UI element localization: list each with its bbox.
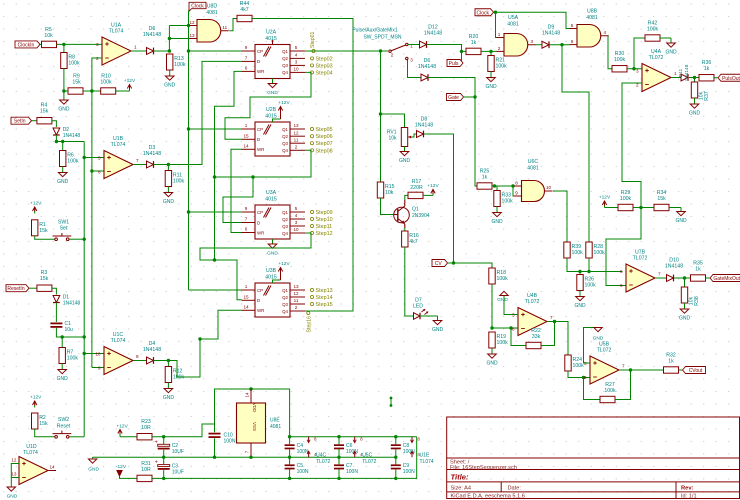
svg-text:3: 3 xyxy=(636,68,639,73)
wire R10 to +12V xyxy=(116,90,130,92)
svg-text:4015: 4015 xyxy=(265,36,277,42)
svg-text:Rev:: Rev: xyxy=(681,486,694,492)
resistor R17 xyxy=(408,179,423,199)
wire Q1 collector to R17 xyxy=(405,195,408,200)
wire stage1 cascade Q4 to U2B D xyxy=(225,72,311,139)
svg-text:5: 5 xyxy=(295,206,298,211)
resistor R10 xyxy=(100,74,115,95)
ground (U4B +in) xyxy=(497,291,518,314)
svg-text:Q1: Q1 xyxy=(282,127,288,132)
svg-text:7: 7 xyxy=(550,315,553,320)
svg-text:GND: GND xyxy=(57,179,69,185)
wire stage3 cascade Q4 to U3B D xyxy=(200,233,311,260)
LED D7 xyxy=(413,298,428,320)
wire R33 stub xyxy=(496,186,498,191)
wire GND mid rail xyxy=(93,456,398,459)
wire Gate label to node xyxy=(464,96,476,98)
wire R15 to Q1 base xyxy=(381,198,395,215)
svg-text:GND: GND xyxy=(675,218,687,224)
svg-text:15k: 15k xyxy=(40,109,49,115)
svg-text:2: 2 xyxy=(498,46,501,51)
wire D11 to R36 xyxy=(689,76,699,79)
svg-text:100k: 100k xyxy=(67,159,79,165)
wire R42 branch xyxy=(634,38,645,69)
wire R7 stub xyxy=(61,337,63,348)
power +12V (U3B) xyxy=(273,261,291,283)
ground (U2A) xyxy=(267,79,278,97)
op-amp power unit U4C xyxy=(307,437,330,465)
svg-text:11: 11 xyxy=(294,137,299,142)
wire U1D output xyxy=(48,464,56,470)
global label Gate xyxy=(447,94,464,102)
ground xyxy=(679,303,691,322)
wire R6 stub xyxy=(62,142,64,151)
svg-text:Q4: Q4 xyxy=(282,70,288,75)
svg-text:9: 9 xyxy=(515,191,518,196)
capacitor C2 xyxy=(155,439,184,455)
svg-text:U8D: U8D xyxy=(207,4,218,10)
svg-text:GND: GND xyxy=(58,107,70,113)
diode D6 xyxy=(418,58,436,81)
resistor R2 xyxy=(32,413,48,429)
wire R42 to GND xyxy=(660,37,671,39)
svg-text:15k: 15k xyxy=(657,196,666,202)
svg-text:6: 6 xyxy=(620,283,623,288)
svg-text:8: 8 xyxy=(515,181,518,186)
wire step16 row xyxy=(305,310,311,312)
wire CV node to R18 xyxy=(454,263,493,268)
wire U1C node to WR chain xyxy=(168,310,241,377)
hierarchical label Step01 (vertical) xyxy=(310,31,316,52)
svg-text:100k: 100k xyxy=(604,388,616,394)
wire set latch rail x=84 xyxy=(83,142,86,437)
resistor R23 xyxy=(137,419,152,440)
svg-text:Step01: Step01 xyxy=(310,31,316,48)
svg-text:3: 3 xyxy=(295,220,298,225)
svg-text:1N4148: 1N4148 xyxy=(63,301,81,307)
wire U5B feedback R27 xyxy=(584,378,601,400)
svg-text:Q1: Q1 xyxy=(282,210,288,215)
hierarchical label Step15 xyxy=(310,302,332,308)
svg-text:4k7: 4k7 xyxy=(240,7,248,13)
wire D10 to R35 xyxy=(674,276,691,279)
wire U8B out to R30 xyxy=(608,36,612,69)
svg-text:2: 2 xyxy=(295,145,298,150)
svg-text:SW_SPDT_MSN: SW_SPDT_MSN xyxy=(363,35,401,41)
svg-text:GND: GND xyxy=(497,297,508,303)
svg-text:Q2: Q2 xyxy=(282,56,288,61)
resistor R38 xyxy=(681,287,700,306)
diode D1 xyxy=(53,295,80,307)
svg-text:Q3: Q3 xyxy=(282,302,288,307)
svg-text:1N4148: 1N4148 xyxy=(542,31,560,37)
svg-text:6: 6 xyxy=(98,169,101,174)
power +12V (rails) xyxy=(116,424,128,437)
svg-text:TL072: TL072 xyxy=(316,459,330,465)
diode D8 xyxy=(415,117,433,138)
resistor R34 xyxy=(654,190,669,211)
resistor R8 xyxy=(61,53,80,69)
svg-text:+12V: +12V xyxy=(116,424,128,430)
resistor R4 xyxy=(37,103,52,124)
wire SetIn to R4 xyxy=(32,120,38,122)
resistor R15 xyxy=(377,182,394,198)
svg-text:8: 8 xyxy=(136,354,139,359)
svg-text:13: 13 xyxy=(293,123,299,128)
title block sheet row xyxy=(450,460,517,471)
resistor R35 xyxy=(691,261,706,282)
wire D12 to R20 node xyxy=(427,45,467,54)
svg-text:Step08: Step08 xyxy=(316,148,333,154)
svg-text:5: 5 xyxy=(571,23,574,28)
svg-text:10R: 10R xyxy=(141,425,151,431)
ground (U1D) xyxy=(7,487,18,500)
wire R22 to output xyxy=(541,320,556,346)
svg-text:7: 7 xyxy=(136,158,139,163)
wire C6 lead2 xyxy=(338,449,340,457)
svg-text:Q4: Q4 xyxy=(282,309,288,314)
svg-text:1N4148: 1N4148 xyxy=(684,64,690,81)
resistor R6 xyxy=(60,151,79,167)
switch SW2 xyxy=(53,417,72,438)
ground xyxy=(57,364,69,383)
wire R21 stub xyxy=(490,51,492,55)
svg-text:Date:: Date: xyxy=(508,485,522,491)
svg-text:4081: 4081 xyxy=(206,10,218,16)
svg-text:4015: 4015 xyxy=(265,197,277,203)
wire R25 to U6C pin8 xyxy=(492,184,515,187)
wire D2 to set node xyxy=(55,135,57,142)
svg-text:Title:: Title: xyxy=(451,473,469,482)
op-amp U5B xyxy=(584,342,625,385)
hierarchical label Step11 xyxy=(310,224,332,230)
svg-text:10UF: 10UF xyxy=(172,469,184,475)
svg-text:13: 13 xyxy=(11,472,17,477)
svg-text:Step13: Step13 xyxy=(316,288,333,294)
hierarchical label Step03 xyxy=(310,63,332,69)
svg-text:4081: 4081 xyxy=(507,22,519,28)
svg-text:15: 15 xyxy=(243,134,249,139)
svg-text:Q3: Q3 xyxy=(282,63,288,68)
diode D6 xyxy=(143,26,161,54)
svg-text:33k: 33k xyxy=(532,334,541,340)
svg-text:15k: 15k xyxy=(39,421,48,427)
resistor R3 xyxy=(37,270,52,291)
diode D3 xyxy=(143,145,161,168)
resistor R11 xyxy=(165,171,184,187)
svg-text:Q1: Q1 xyxy=(412,207,419,213)
svg-text:1N4148: 1N4148 xyxy=(665,264,683,270)
svg-text:GND: GND xyxy=(267,90,278,96)
svg-text:KiCad E.D.A. eeschema 5.1.6: KiCad E.D.A. eeschema 5.1.6 xyxy=(451,493,525,499)
svg-text:3: 3 xyxy=(96,42,99,47)
wire +12V to R29 xyxy=(605,207,619,209)
wire D4 to node xyxy=(154,359,171,362)
svg-text:9: 9 xyxy=(245,206,248,211)
svg-text:TL074: TL074 xyxy=(420,459,434,465)
hierarchical label Step13 xyxy=(310,288,332,294)
ground xyxy=(57,167,69,186)
svg-text:CV: CV xyxy=(435,261,443,267)
wire R24 to U5B - xyxy=(568,371,590,379)
wire U5A out to D9 xyxy=(536,44,542,46)
svg-text:+12V: +12V xyxy=(278,261,290,267)
wire D8 to CV node xyxy=(424,134,454,263)
svg-text:Step04: Step04 xyxy=(316,70,333,76)
svg-text:Pulse/Aux/GateMix1: Pulse/Aux/GateMix1 xyxy=(352,28,398,34)
svg-text:GND: GND xyxy=(593,336,604,342)
wire U1D to GND xyxy=(10,478,12,488)
ground xyxy=(58,91,70,113)
svg-text:Q2: Q2 xyxy=(282,217,288,222)
svg-text:10R: 10R xyxy=(141,467,151,473)
resistor R26 xyxy=(577,275,596,291)
svg-text:+: + xyxy=(155,460,158,466)
wire C4 leads xyxy=(289,437,291,445)
title block frame xyxy=(447,417,740,499)
svg-text:4081: 4081 xyxy=(270,424,281,430)
svg-text:Step12: Step12 xyxy=(316,231,333,237)
svg-text:GND: GND xyxy=(164,83,176,89)
svg-text:GND: GND xyxy=(689,111,701,117)
op-amp U4A xyxy=(636,49,677,92)
switch SW1 xyxy=(53,219,72,240)
ground (mid rail) xyxy=(88,457,99,472)
svg-text:GND: GND xyxy=(163,199,175,205)
AND gate U8B xyxy=(570,9,609,48)
wire bus to U2B CP xyxy=(189,128,242,130)
svg-text:100k: 100k xyxy=(647,27,659,33)
ground xyxy=(164,70,176,89)
svg-text:U5C: U5C xyxy=(362,453,372,459)
svg-text:Step15: Step15 xyxy=(316,302,333,308)
svg-text:4: 4 xyxy=(295,53,298,58)
svg-text:7: 7 xyxy=(245,217,248,222)
IC U8E power unit xyxy=(237,389,282,457)
svg-text:1k: 1k xyxy=(695,267,701,273)
ground xyxy=(163,383,175,402)
svg-text:Gate: Gate xyxy=(448,95,459,101)
wire RV1 feed xyxy=(381,114,405,128)
svg-text:U1E: U1E xyxy=(420,453,430,459)
wire D3 to node xyxy=(154,163,171,166)
svg-text:U3B: U3B xyxy=(266,268,277,274)
svg-text:6: 6 xyxy=(571,39,574,44)
ground (U3A) xyxy=(267,239,278,257)
svg-text:100k: 100k xyxy=(100,80,112,86)
wire R38 stub xyxy=(684,278,686,287)
svg-text:TL072: TL072 xyxy=(633,256,648,262)
svg-text:10: 10 xyxy=(293,227,299,232)
svg-text:TL072: TL072 xyxy=(597,348,612,354)
ground xyxy=(491,207,503,226)
svg-text:TL072: TL072 xyxy=(525,299,540,305)
resistor R18 xyxy=(489,268,508,284)
power +12V xyxy=(30,201,42,214)
wire R1 to SW1 xyxy=(35,236,55,239)
wire U4B out to R24 column xyxy=(547,322,568,356)
ground xyxy=(163,187,175,206)
shift register U3A xyxy=(242,190,306,239)
wire +12V rail left xyxy=(120,436,137,438)
svg-text:4081: 4081 xyxy=(586,15,598,21)
svg-text:TL072: TL072 xyxy=(362,459,376,465)
transistor Q1 xyxy=(394,200,430,228)
wire rail to U1C -in xyxy=(92,367,104,369)
resistor R16 xyxy=(402,231,419,247)
hierarchical label Step04 xyxy=(310,70,332,76)
wire U4B feedback R22 xyxy=(511,328,526,346)
svg-text:R37: R37 xyxy=(704,91,710,101)
wire D6 to node xyxy=(154,49,172,52)
svg-text:TL074: TL074 xyxy=(111,338,126,344)
capacitor C6 xyxy=(334,443,358,455)
svg-text:WR: WR xyxy=(257,230,264,235)
svg-text:1: 1 xyxy=(245,123,248,128)
wire latch to U1C +in xyxy=(84,353,104,355)
op-amp power unit U1E xyxy=(410,437,433,465)
svg-text:1: 1 xyxy=(498,32,501,37)
global label Puls xyxy=(447,60,463,68)
svg-text:10u: 10u xyxy=(65,327,74,333)
ground xyxy=(665,38,677,56)
svg-text:Set: Set xyxy=(60,225,68,231)
ground xyxy=(689,98,701,117)
resistor R39 xyxy=(564,242,583,258)
wire summing node row xyxy=(567,258,623,273)
resistor R13 xyxy=(167,54,186,70)
wire R36 to PulsOut xyxy=(714,77,718,79)
wire C5 lead2 xyxy=(289,469,291,478)
svg-text:+12V: +12V xyxy=(599,195,611,201)
svg-text:10: 10 xyxy=(293,67,299,72)
svg-text:Step05: Step05 xyxy=(316,127,333,133)
svg-text:GND: GND xyxy=(486,361,498,367)
wire set node row xyxy=(55,140,84,143)
svg-text:6: 6 xyxy=(245,66,248,71)
wire divider left xyxy=(62,89,68,92)
wire D9 node to R28 column xyxy=(562,45,589,242)
svg-text:TL074: TL074 xyxy=(23,450,38,456)
svg-text:1k: 1k xyxy=(668,359,674,365)
svg-text:TL074: TL074 xyxy=(111,142,126,148)
wire R2 to SW2 xyxy=(35,429,55,437)
svg-text:1N4148: 1N4148 xyxy=(143,151,161,157)
svg-text:14: 14 xyxy=(243,305,249,310)
wire -12V rail xyxy=(152,437,417,480)
wire pin9 tie xyxy=(513,186,515,196)
svg-text:Q2: Q2 xyxy=(282,295,288,300)
wire C8 lead2 xyxy=(395,449,397,457)
global label CVout xyxy=(683,367,706,375)
global label CV xyxy=(432,260,448,268)
svg-text:Q3: Q3 xyxy=(282,224,288,229)
wire C9 leads xyxy=(395,457,397,464)
svg-text:D: D xyxy=(257,220,260,225)
svg-text:+12V: +12V xyxy=(30,201,42,207)
wire WR link U2B to U3A xyxy=(231,149,242,232)
svg-text:Step07: Step07 xyxy=(316,141,333,147)
wire C9 lead2 xyxy=(395,469,397,478)
svg-text:15k: 15k xyxy=(72,80,81,86)
svg-text:9: 9 xyxy=(98,365,101,370)
wire R29 to R34 xyxy=(633,207,654,209)
svg-text:100k: 100k xyxy=(502,199,514,205)
diode D4 xyxy=(143,341,161,364)
svg-text:1N4148: 1N4148 xyxy=(143,347,161,353)
ground xyxy=(399,147,411,165)
svg-text:100k: 100k xyxy=(68,61,80,67)
svg-text:LED: LED xyxy=(413,304,423,310)
wire R8 to divider row xyxy=(63,69,65,92)
resistor R42 xyxy=(645,21,660,42)
svg-text:GND: GND xyxy=(432,327,444,333)
svg-text:1k: 1k xyxy=(471,40,477,46)
svg-text:100k: 100k xyxy=(594,250,606,256)
wire step01 row to switch xyxy=(305,49,388,52)
wire C3 lead2 xyxy=(163,470,165,478)
svg-text:GND: GND xyxy=(88,467,99,473)
global label Clock xyxy=(475,9,494,17)
wire ClockIn to R5 xyxy=(40,43,42,45)
svg-text:Q4: Q4 xyxy=(282,148,288,153)
svg-text:GND: GND xyxy=(574,303,586,309)
svg-text:U8E: U8E xyxy=(270,418,280,424)
wire dangling stub xyxy=(390,397,393,407)
svg-text:13: 13 xyxy=(293,284,299,289)
diode D9 xyxy=(542,25,561,49)
svg-text:1N4148: 1N4148 xyxy=(415,123,433,129)
capacitor C1 xyxy=(50,321,73,333)
wire threshold rail xyxy=(90,58,102,368)
wire node to U8D pin13 xyxy=(169,38,190,40)
resistor R20 xyxy=(466,34,481,55)
AND gate U6C xyxy=(514,159,553,202)
hierarchical label Step07 xyxy=(310,141,332,147)
diode D11 xyxy=(678,64,690,81)
wire R32 to CVout xyxy=(679,369,683,371)
svg-text:R38: R38 xyxy=(694,296,700,306)
svg-text:TL074: TL074 xyxy=(109,29,124,35)
wire R5 to U1A +in xyxy=(57,43,103,46)
AND gate U5A xyxy=(497,15,536,56)
svg-text:100N: 100N xyxy=(403,469,415,475)
wire R44 to step16 feedback loop xyxy=(252,19,353,312)
hierarchical label Step05 xyxy=(310,127,332,133)
svg-text:GND: GND xyxy=(7,494,18,500)
wire R34 to GND xyxy=(669,207,681,209)
svg-text:Step10: Step10 xyxy=(316,217,333,223)
svg-text:4: 4 xyxy=(295,213,298,218)
wire C7 lead2 xyxy=(338,469,340,478)
wire LED to GND xyxy=(420,315,438,317)
svg-text:ResetIn: ResetIn xyxy=(7,286,24,292)
wire C2 lead2 xyxy=(163,450,165,457)
svg-text:10: 10 xyxy=(546,185,552,190)
resistor R31 xyxy=(137,461,152,482)
global label ResetIn xyxy=(6,285,29,293)
svg-text:6: 6 xyxy=(584,375,587,380)
svg-text:CP: CP xyxy=(257,288,263,293)
wire U1C out to D4 xyxy=(133,360,146,362)
svg-text:CVout: CVout xyxy=(689,368,703,374)
svg-text:100k: 100k xyxy=(614,57,626,63)
svg-text:Clock: Clock xyxy=(191,4,204,10)
svg-text:+12V: +12V xyxy=(30,395,42,401)
svg-text:5: 5 xyxy=(295,45,298,50)
svg-text:12: 12 xyxy=(189,20,195,25)
resistor R33 xyxy=(494,191,513,207)
